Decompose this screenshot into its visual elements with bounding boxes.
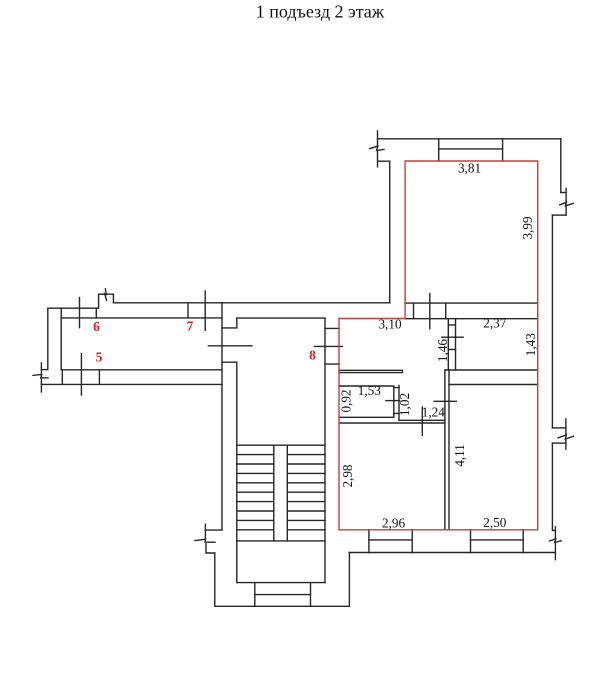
wire: bottom outer wall line <box>349 552 555 554</box>
bottom window 1 verticals <box>369 530 412 553</box>
wire: stair hall top inner line <box>237 317 325 319</box>
door 4,11 leaf <box>434 400 456 402</box>
wall hall/2,37 jamb ticks <box>448 325 455 350</box>
svg-text:2,96: 2,96 <box>382 515 405 530</box>
break symbol bottom-left <box>33 374 48 377</box>
svg-text:0,92: 0,92 <box>339 389 354 412</box>
bottom window 2 middle <box>471 539 524 541</box>
wire: hall bottom wall lines <box>339 370 403 372</box>
break tick lower bay + jog <box>206 544 215 553</box>
svg-text:5: 5 <box>96 350 103 365</box>
wire: break jog right bottom <box>553 529 556 531</box>
wire: small room bottom line <box>339 416 394 418</box>
bottom window 1 middle <box>369 539 412 541</box>
wire: wall line below room 3,99 right part <box>405 302 538 304</box>
stairs central divider <box>274 445 288 541</box>
wire: break jog right mid upper lip <box>552 427 566 429</box>
break symbol top corridor <box>105 289 107 301</box>
door hall-room leaf <box>429 294 431 329</box>
door hall-room jamb right <box>445 303 447 319</box>
tick right upper break <box>565 188 567 201</box>
wire: break jog right upper lower lip <box>552 214 566 216</box>
wire: inner corridor bottom line <box>399 419 445 421</box>
break symbol right middle <box>558 435 574 439</box>
window top room 3,99 middle line <box>439 148 503 150</box>
svg-text:7: 7 <box>187 319 194 334</box>
wire: break jog bottom of bay wall <box>205 529 222 531</box>
svg-text:1,02: 1,02 <box>397 393 412 416</box>
wire: stair bay inner right wall <box>324 318 326 582</box>
porch middle line <box>255 594 311 596</box>
door 7 leaf <box>204 291 206 330</box>
wall hall/2,37 left line <box>447 319 449 370</box>
wire: room 2,37 bottom line <box>445 369 538 371</box>
landing bottom line <box>237 582 325 584</box>
wire: room 4,11 top line <box>449 384 538 386</box>
svg-text:3,81: 3,81 <box>458 161 481 176</box>
wire: divider wall rooms left line <box>444 370 446 530</box>
small room door leaf <box>386 400 400 402</box>
wire: stair bay outer left wall <box>221 303 223 530</box>
wire: stair bay inner left wall upper <box>236 318 238 328</box>
window niche end top <box>95 308 97 318</box>
wire: small room right wall lines <box>394 386 399 421</box>
break symbol top-left room <box>370 146 384 150</box>
wire: lower stub and jog top-left room <box>378 151 390 167</box>
wire: right outer wall lower <box>551 443 553 530</box>
window top room 3,99 verticals <box>439 139 503 161</box>
break symbol right upper <box>560 202 574 206</box>
break tick bottom-left <box>40 363 42 392</box>
wire: break jog bottom-left <box>41 369 47 371</box>
tick right mid break upper <box>565 419 567 434</box>
wire: right outer wall upper <box>560 139 562 193</box>
svg-text:1,46: 1,46 <box>435 339 450 362</box>
svg-text:1,53: 1,53 <box>358 383 381 398</box>
wire: outer boundary below stairs <box>215 553 350 607</box>
svg-text:8: 8 <box>309 348 316 363</box>
wire: hall top black line <box>405 318 538 320</box>
wire: stub top-left of room 3,99 <box>377 131 379 146</box>
wire: right outer wall middle <box>551 215 553 428</box>
window niche verticals bottom <box>62 370 99 385</box>
tick right upper break lower <box>565 205 567 215</box>
small room door jamb ticks <box>394 388 399 414</box>
door stair hall leaf <box>208 345 252 347</box>
svg-text:2,37: 2,37 <box>483 316 506 331</box>
apartment entry door leaf <box>314 345 342 347</box>
window tick room 5 <box>80 354 82 395</box>
porch side walls <box>255 583 311 607</box>
stairs right flight steps <box>287 455 325 530</box>
wall hall/2,37 right line <box>455 319 457 370</box>
apartment red outline <box>339 161 538 530</box>
wire: break jog right mid lower lip <box>552 442 566 444</box>
svg-text:3,99: 3,99 <box>520 216 535 239</box>
svg-text:1 подъезд 2 этаж: 1 подъезд 2 этаж <box>256 2 385 22</box>
stairs left flight steps <box>238 445 326 530</box>
svg-text:4,11: 4,11 <box>452 444 467 467</box>
svg-text:3,10: 3,10 <box>378 317 401 332</box>
door stair hall bottom jamb <box>222 361 237 363</box>
svg-text:1,43: 1,43 <box>523 333 538 356</box>
break symbol right bottom <box>550 539 562 543</box>
wire: room 3,99 outer left wall <box>389 161 391 303</box>
wire: left wing outer top wall + west wall <box>48 294 390 369</box>
wire: corridor bottom wall bottom line <box>41 383 222 385</box>
door hall-room jamb left <box>413 303 415 319</box>
wire: break jog right upper <box>561 192 566 194</box>
door 2,37 leaf <box>442 336 464 338</box>
bottom window 2 verticals <box>471 530 524 553</box>
window tick room 6 <box>79 298 81 328</box>
door corridor-2,98 tick <box>421 407 423 435</box>
door 7 jamb <box>187 303 189 318</box>
door stair hall top jamb <box>222 327 237 329</box>
svg-text:6: 6 <box>93 319 100 334</box>
wire: corridor inner top line <box>61 317 222 319</box>
wire: small room top line <box>339 385 394 387</box>
tick right mid break lower <box>565 440 567 450</box>
svg-text:1,24: 1,24 <box>422 405 445 420</box>
apartment entry door jambs <box>325 328 339 364</box>
break tick upper bay <box>204 524 206 538</box>
wire: corridor bottom wall top line <box>62 369 222 371</box>
svg-text:2,50: 2,50 <box>483 515 506 530</box>
wire: left wing inner west wall <box>60 308 62 370</box>
tick right bottom break <box>554 527 556 560</box>
landing top line <box>237 540 325 542</box>
break symbol bay bottom <box>195 539 215 542</box>
wire: top outer wall of house <box>378 138 561 140</box>
wire: stair bay inner left wall lower <box>236 362 238 582</box>
wire: divider wall rooms right line <box>448 370 450 530</box>
wire: room 2,98 top line <box>340 422 445 424</box>
svg-text:2,98: 2,98 <box>340 464 355 487</box>
